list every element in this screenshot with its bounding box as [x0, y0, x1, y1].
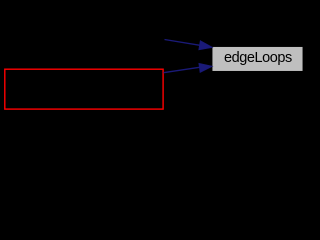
- svg-text:edgeLoops: edgeLoops: [224, 50, 292, 66]
